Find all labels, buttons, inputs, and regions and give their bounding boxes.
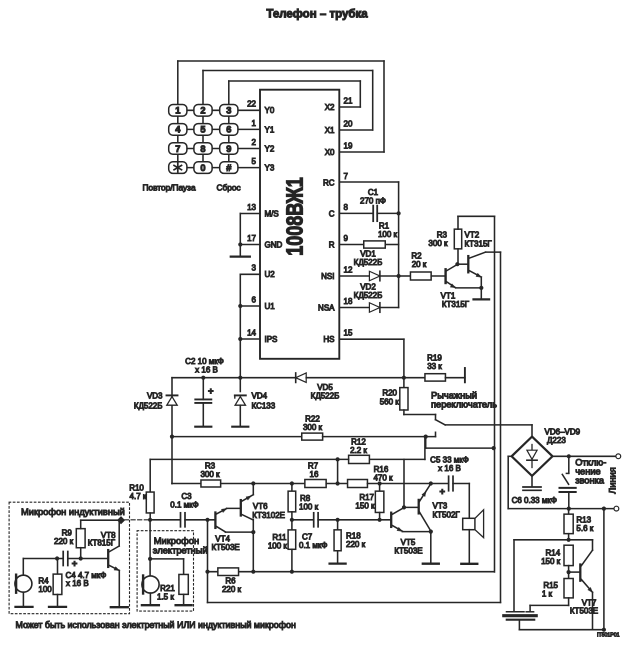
svg-text:Y0: Y0 [265,106,275,115]
svg-text:R20: R20 [382,389,397,398]
svg-text:9: 9 [226,144,231,154]
svg-text:4.7 к: 4.7 к [130,492,147,501]
svg-text:C: C [329,210,335,219]
svg-text:20: 20 [344,119,353,128]
svg-text:470 к: 470 к [373,474,393,483]
svg-text:7: 7 [344,172,349,181]
svg-text:9: 9 [344,234,349,243]
svg-text:U1: U1 [265,302,276,311]
svg-text:0: 0 [200,163,205,173]
svg-text:1 к: 1 к [542,590,553,599]
svg-text:8: 8 [200,144,205,154]
svg-text:16: 16 [310,470,319,479]
svg-text:КТ3102Е: КТ3102Е [252,511,285,520]
svg-text:33 к: 33 к [427,362,442,371]
svg-text:КТ315Г: КТ315Г [465,240,493,249]
svg-text:х 16 В: х 16 В [66,579,89,588]
svg-text:U2: U2 [265,270,276,279]
svg-text:220 к: 220 к [54,537,74,546]
svg-text:5: 5 [252,157,257,166]
svg-text:+: + [72,559,78,570]
svg-text:220 к: 220 к [346,540,366,549]
svg-text:X1: X1 [325,126,335,135]
svg-text:300 к: 300 к [428,239,448,248]
svg-text:21: 21 [344,96,353,105]
svg-text:3: 3 [252,264,257,273]
svg-text:270 пФ: 270 пФ [360,197,386,206]
svg-text:КД522Б: КД522Б [354,291,383,300]
svg-text:Может быть использован электре: Может быть использован электретный ИЛИ и… [16,620,296,630]
svg-text:NSI: NSI [321,272,334,281]
svg-text:VD4: VD4 [252,391,268,400]
svg-text:2: 2 [200,106,205,116]
svg-text:КД522Б: КД522Б [311,391,340,400]
svg-text:переключатель: переключатель [431,399,497,409]
svg-text:100 к: 100 к [378,230,398,239]
svg-text:100 к: 100 к [268,542,288,551]
svg-text:100: 100 [38,585,52,594]
svg-text:Д223: Д223 [547,436,566,445]
svg-text:3: 3 [226,106,231,116]
svg-text:RC: RC [323,178,335,187]
svg-text:КД522Б: КД522Б [134,401,163,410]
svg-text:R: R [329,240,335,249]
svg-text:IT501P01: IT501P01 [597,633,620,639]
svg-text:1.5 к: 1.5 к [157,593,174,602]
svg-text:2.2 к: 2.2 к [350,446,367,455]
svg-text:300 к: 300 к [303,423,323,432]
svg-text:VT2: VT2 [465,231,480,240]
svg-text:X2: X2 [325,103,335,112]
svg-text:VT6: VT6 [253,502,268,511]
svg-text:КТ503Е: КТ503Е [212,543,240,552]
svg-text:VT3: VT3 [433,502,448,511]
svg-text:150 к: 150 к [355,502,375,511]
svg-text:4: 4 [175,125,181,135]
svg-text:х 16 В: х 16 В [438,464,461,473]
svg-text:17: 17 [247,234,256,243]
svg-text:КТ815Г: КТ815Г [88,538,116,547]
svg-text:GND: GND [265,240,283,249]
svg-text:0.1 мкФ: 0.1 мкФ [170,501,198,510]
svg-text:Y3: Y3 [265,164,275,173]
svg-text:6: 6 [226,125,231,135]
svg-text:0.1 мкФ: 0.1 мкФ [299,541,327,550]
svg-text:150 к: 150 к [541,557,561,566]
svg-text:Телефон – трубка: Телефон – трубка [266,9,368,21]
svg-text:+: + [440,487,446,498]
svg-text:300 к: 300 к [200,470,220,479]
svg-text:19: 19 [344,141,353,150]
svg-text:VT1: VT1 [441,291,456,300]
svg-text:8: 8 [344,203,349,212]
svg-text:Линия: Линия [608,467,618,494]
svg-text:220 к: 220 к [222,585,242,594]
svg-text:1: 1 [252,119,257,128]
svg-text:2: 2 [252,138,257,147]
svg-text:NSA: NSA [318,303,335,312]
svg-text:+: + [208,386,214,397]
svg-text:HS: HS [323,335,334,344]
svg-text:C6 0.33 мкФ: C6 0.33 мкФ [512,496,557,505]
svg-text:560 к: 560 к [380,398,400,407]
svg-text:5.6 к: 5.6 к [576,524,593,533]
svg-text:х 16 В: х 16 В [195,366,218,375]
svg-text:КТ502Г: КТ502Г [433,511,461,520]
svg-text:22: 22 [247,100,256,109]
svg-text:КТ503Е: КТ503Е [394,547,422,556]
svg-text:18: 18 [344,297,353,306]
svg-text:КТ315Г: КТ315Г [442,300,470,309]
svg-text:20 к: 20 к [412,260,427,269]
svg-text:1008ВЖ1: 1008ВЖ1 [282,177,308,256]
svg-text:Сброс: Сброс [217,182,241,192]
svg-text:электретный: электретный [153,546,208,556]
svg-text:#: # [226,163,232,173]
svg-text:IPS: IPS [265,335,278,344]
svg-text:100 к: 100 к [299,503,319,512]
svg-text:VD3: VD3 [147,391,163,400]
svg-text:КС133: КС133 [252,401,276,410]
svg-text:13: 13 [247,203,256,212]
svg-text:Y1: Y1 [265,125,275,134]
svg-text:7: 7 [175,144,180,154]
svg-text:КТ503Е: КТ503Е [570,607,598,616]
svg-text:звонка: звонка [575,476,605,486]
svg-text:M/S: M/S [265,209,279,218]
svg-text:Повтор/Пауза: Повтор/Пауза [143,182,196,192]
svg-text:6: 6 [252,295,257,304]
svg-text:Y2: Y2 [265,144,275,153]
svg-text:КД522Б: КД522Б [354,258,383,267]
svg-text:Микрофон индуктивный: Микрофон индуктивный [21,507,125,517]
svg-text:X0: X0 [325,148,335,157]
svg-text:15: 15 [344,329,353,338]
svg-text:5: 5 [200,125,205,135]
svg-text:12: 12 [344,265,353,274]
svg-text:14: 14 [247,328,256,337]
svg-text:1: 1 [175,106,180,116]
